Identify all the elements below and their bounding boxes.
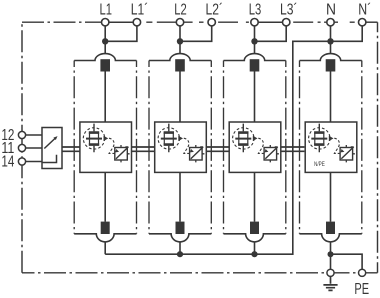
trigger arrow of spark gap F1 bbox=[104, 136, 109, 141]
varistor RV1 diagonal bbox=[116, 147, 128, 159]
enclosure border bottom edge (dash-dot) bbox=[22, 272, 378, 274]
terminal PE bbox=[359, 269, 366, 276]
wire L2&#39; drop to junction bbox=[180, 26, 212, 41]
junction node L1 bbox=[102, 38, 108, 44]
wire L3 drop to junction bbox=[254, 26, 256, 54]
thermal disconnector bottom of module 1 (arc crossover) bbox=[74, 234, 136, 242]
wire protection box to bottom disconnector module 4 bbox=[330, 172, 332, 221]
disconnector fuse element top of module 2 bbox=[175, 59, 185, 71]
wire protection box to bottom disconnector module 1 bbox=[104, 172, 106, 221]
svg-text:L1: L1 bbox=[99, 2, 112, 19]
disconnector fuse element top of module 1 bbox=[100, 59, 110, 71]
svg-text:14: 14 bbox=[1, 153, 14, 170]
disconnector fuse element bottom of module 1 bbox=[101, 222, 110, 234]
wire L2 drop to junction bbox=[179, 26, 181, 54]
svg-text:L3´: L3´ bbox=[280, 2, 298, 19]
junction node bus-module 3 bbox=[251, 251, 257, 257]
spark gap F3 middle electrode bar bbox=[235, 138, 251, 140]
varistor RV4 diagonal bbox=[341, 147, 353, 159]
spark gap F4 dashed circle bbox=[309, 128, 330, 149]
spark gap F4 lead stubs bbox=[318, 124, 320, 153]
terminal L2 bbox=[176, 19, 183, 26]
border dashes between L3&#39; and N bbox=[293, 21, 327, 23]
spark gap F3 dashed circle bbox=[233, 128, 254, 149]
disconnector fuse element bottom of module 3 bbox=[250, 222, 259, 234]
spark gap F3 lead stubs bbox=[242, 124, 244, 153]
border dashes between N and N&#39; bbox=[334, 21, 355, 23]
enclosure border top-right corner solid piece bbox=[366, 21, 378, 23]
trigger arrow of spark gap F4 bbox=[329, 136, 334, 141]
trigger link arrowhead module 1 bbox=[115, 149, 119, 152]
disconnector fuse element bottom of module 2 bbox=[176, 222, 185, 234]
module 4 dashed enclosure sides bbox=[300, 61, 362, 234]
terminal 14 bbox=[18, 158, 25, 165]
wire PE node to PE terminal bbox=[331, 254, 363, 269]
spark gap F1 electrodes bbox=[89, 133, 99, 145]
wire L1-L1&#39; terminal link bbox=[109, 21, 133, 23]
wire terminal 11 to contact box bbox=[26, 147, 42, 149]
spark gap F1 dashed circle bbox=[83, 128, 104, 149]
junction node bus-module 2 bbox=[177, 251, 183, 257]
spark gap F2 body sides bbox=[164, 133, 173, 145]
disconnector fuse element top of module 4 bbox=[326, 59, 336, 71]
svg-text:N: N bbox=[326, 2, 336, 19]
trigger link arrowhead module 4 bbox=[340, 149, 344, 152]
mechanical linkage line y=147.0 bbox=[62, 146, 304, 148]
spark gap F2 dashed circle bbox=[158, 128, 179, 149]
thermal disconnector bottom of module 4 (arc crossover) bbox=[300, 234, 362, 242]
varistor RV1 lead stubs bbox=[121, 145, 130, 162]
varistor RV2 diagonal bbox=[191, 147, 203, 159]
terminal L3&#39; bbox=[283, 19, 290, 26]
trigger link arrowhead module 2 bbox=[190, 149, 194, 152]
junction node L2 bbox=[177, 38, 183, 44]
border dashes between L2&#39; and L3 bbox=[218, 21, 249, 23]
wire N drop to junction bbox=[330, 26, 332, 54]
module 3 dashed enclosure sides bbox=[224, 61, 286, 234]
trigger arrow of spark gap F2 bbox=[178, 136, 183, 141]
wire disconnector to protection box module 1 bbox=[104, 72, 106, 123]
changeover contact lever (11 common) bbox=[44, 138, 56, 149]
disconnector fuse element bottom of module 4 bbox=[326, 222, 335, 234]
module 2 dashed enclosure sides bbox=[149, 61, 211, 234]
wire protection box to bottom disconnector module 3 bbox=[254, 172, 256, 221]
thermal disconnector top of module 2 (arc crossover) bbox=[149, 54, 211, 61]
thermal disconnector top of module 1 (arc crossover) bbox=[74, 54, 136, 61]
varistor RV4 lead stubs bbox=[346, 145, 355, 162]
wire L1&#39; drop to junction bbox=[105, 26, 137, 41]
svg-text:PE: PE bbox=[354, 281, 369, 298]
varistor RV3 bbox=[264, 148, 277, 161]
junction node L3 bbox=[251, 38, 257, 44]
wire module 2 bottom to N bus bbox=[179, 242, 181, 254]
trigger link arrowhead module 3 bbox=[264, 149, 268, 152]
terminal L1&#39; bbox=[133, 19, 140, 26]
protection module box 1 bbox=[80, 122, 132, 172]
terminal N bbox=[327, 19, 334, 26]
svg-text:L1´: L1´ bbox=[131, 2, 149, 19]
wire N&#39; drop to junction bbox=[331, 26, 363, 41]
wire module 1 bottom to N bus bbox=[104, 242, 106, 254]
spark gap F1 body sides bbox=[90, 133, 99, 145]
spark gap F3 body sides bbox=[239, 133, 248, 145]
wire disconnector to protection box module 2 bbox=[179, 72, 181, 123]
varistor RV3 lead stubs bbox=[270, 145, 279, 162]
terminal 11 bbox=[18, 144, 25, 151]
junction node PE bbox=[328, 251, 334, 257]
trigger dashed link to varistor module 1 bbox=[109, 138, 115, 153]
svg-text:L2´: L2´ bbox=[206, 2, 224, 19]
enclosure border right edge (dash-dot) bbox=[377, 22, 379, 273]
svg-text:N´: N´ bbox=[358, 2, 371, 19]
wire protection box to bottom disconnector module 2 bbox=[179, 172, 181, 221]
mechanical linkage line y=151.3 bbox=[62, 150, 304, 152]
wire terminal 14 to contact box bbox=[26, 161, 42, 163]
wire disconnector to protection box module 4 bbox=[330, 72, 332, 123]
disconnector fuse element top of module 3 bbox=[250, 59, 260, 71]
N bus wire (module bottoms to N junction) bbox=[105, 41, 327, 254]
changeover contact lever arrowhead bbox=[53, 136, 57, 140]
thermal disconnector top of module 3 (arc crossover) bbox=[224, 54, 286, 61]
spark gap F2 lead stubs bbox=[168, 124, 170, 153]
trigger arrow of spark gap F3 bbox=[253, 136, 258, 141]
thermal disconnector bottom of module 2 (arc crossover) bbox=[149, 234, 211, 242]
junction node N bbox=[327, 38, 333, 44]
wire L3&#39; drop to junction bbox=[255, 26, 287, 41]
varistor RV4 bbox=[340, 148, 353, 161]
remote signalling contact box S1 bbox=[42, 128, 62, 169]
spark gap F4 body sides bbox=[315, 133, 324, 145]
enclosure border left edge (dash-dot) bbox=[21, 22, 23, 273]
spark gap F4 electrodes bbox=[314, 133, 324, 145]
spark gap F1 lead stubs bbox=[93, 124, 95, 153]
border dashes between L2 and L2&#39; bbox=[184, 21, 204, 23]
spark gap F2 middle electrode bar bbox=[161, 138, 177, 140]
terminal L3 bbox=[251, 19, 258, 26]
trigger dashed link to varistor module 3 bbox=[258, 138, 264, 153]
spark gap F3 electrodes bbox=[238, 133, 248, 145]
spark gap F1 middle electrode bar bbox=[86, 138, 102, 140]
protection module box 4 bbox=[305, 122, 357, 172]
ground symbol bbox=[323, 276, 337, 290]
contact 14 terminal stub bbox=[42, 155, 57, 163]
module 1 dashed enclosure sides bbox=[74, 61, 136, 234]
terminal L1 bbox=[102, 19, 109, 26]
terminal 12 bbox=[18, 131, 25, 138]
wire L1 drop to junction bbox=[104, 26, 106, 54]
spark gap F4 middle electrode bar bbox=[311, 138, 327, 140]
terminal N&#39; bbox=[359, 19, 366, 26]
svg-text:L3: L3 bbox=[249, 2, 262, 19]
terminal L2&#39; bbox=[208, 19, 215, 26]
terminal earth (ground) bbox=[327, 269, 334, 276]
protection module box 3 bbox=[229, 122, 281, 172]
varistor RV2 lead stubs bbox=[196, 145, 205, 162]
thermal disconnector bottom of module 3 (arc crossover) bbox=[224, 234, 286, 242]
varistor RV1 bbox=[115, 148, 128, 161]
trigger dashed link to varistor module 4 bbox=[334, 138, 340, 153]
varistor RV2 bbox=[190, 148, 203, 161]
thermal disconnector top of module 4 (arc crossover) bbox=[300, 54, 362, 61]
varistor RV3 diagonal bbox=[265, 147, 277, 159]
svg-text:L2: L2 bbox=[174, 2, 187, 19]
trigger dashed link to varistor module 2 bbox=[184, 138, 190, 153]
wire disconnector to protection box module 3 bbox=[254, 72, 256, 123]
wire module 3 bottom to N bus bbox=[254, 242, 256, 254]
border dashes between L1&#39; and L2 bbox=[146, 21, 176, 23]
wire L3-L3&#39; terminal link bbox=[258, 21, 282, 23]
enclosure border top edge left piece (dash-dot) bbox=[22, 21, 102, 23]
wire terminal 12 to contact box bbox=[26, 134, 42, 136]
wire module 4 bottom to PE node bbox=[330, 242, 332, 269]
spark gap F2 electrodes bbox=[164, 133, 174, 145]
protection module box 2 bbox=[155, 122, 207, 172]
svg-text:N/PE: N/PE bbox=[314, 161, 325, 168]
